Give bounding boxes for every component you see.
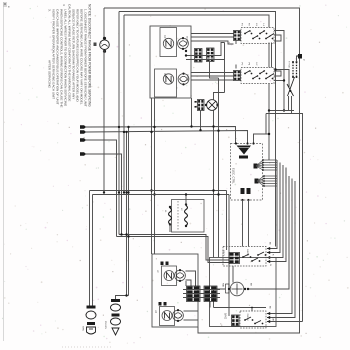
oven light block: [198, 100, 205, 111]
wire light down b: [217, 78, 219, 258]
bake contacts: [244, 317, 263, 324]
wire L1 left drop to fuse: [103, 8, 105, 40]
element LR: [173, 309, 184, 322]
oven box: [210, 258, 277, 327]
junction dots left: [103, 126, 130, 194]
wire box drop: [190, 98, 192, 128]
svg-text:P3: P3: [241, 63, 243, 66]
page bottom dots: [62, 346, 112, 348]
wire surface feed a: [150, 98, 152, 254]
thermal cutout TOD: [288, 61, 298, 78]
svg-text:3400W: 3400W: [246, 249, 248, 257]
switch box RR: [155, 69, 177, 97]
svg-text:4: 4: [62, 4, 66, 6]
fuse F1: [99, 37, 109, 53]
corner smudge: [4, 3, 10, 8]
wires RF to switch1: [191, 34, 234, 45]
switch1 right wires: [274, 31, 284, 111]
svg-text:RF: RF: [163, 35, 166, 39]
infinite switch 2: [234, 68, 275, 84]
wires LF right: [186, 271, 196, 286]
broil element box: [223, 247, 266, 267]
svg-text:OR: OR: [272, 318, 274, 322]
lamp block ticks: [195, 101, 197, 108]
wire board pin3: [254, 133, 271, 144]
bundle stub: [277, 160, 286, 184]
connector block P3: [195, 49, 203, 63]
wire labels broil: [269, 242, 274, 266]
svg-text:P: P: [302, 59, 304, 61]
svg-text:R: R: [272, 254, 274, 256]
connector block P6: [204, 286, 217, 302]
svg-text:BROIL: BROIL: [222, 250, 224, 258]
relay crossing: [287, 77, 295, 96]
switch interconnect: [269, 43, 272, 68]
sensor wire down: [169, 225, 171, 233]
wires blocks row: [183, 281, 220, 308]
label P blob: [298, 54, 304, 61]
wire pair midright: [266, 111, 303, 322]
svg-text:AFTER SERVICING: AFTER SERVICING: [48, 60, 52, 89]
svg-text:FAN: FAN: [222, 283, 225, 288]
label RF: [163, 35, 188, 44]
bundle v5: [247, 176, 289, 290]
svg-text:LF: LF: [156, 270, 158, 273]
board connector fan 1: [254, 159, 278, 171]
element RF: [178, 37, 189, 50]
surface box right: [150, 26, 191, 98]
plug stack B wire: [116, 294, 129, 299]
svg-text:BR: BR: [250, 283, 252, 286]
switch box LF: [162, 266, 177, 286]
svg-text:H1: H1: [255, 23, 257, 27]
bake element box: [240, 311, 266, 328]
wire tod feed left: [274, 68, 289, 87]
svg-text:P2: P2: [248, 23, 250, 26]
labels switch1: [241, 23, 265, 27]
svg-text:3.: 3.: [48, 9, 52, 12]
oven bottom wire: [214, 303, 267, 311]
terminal P2: [80, 130, 248, 295]
board connector fan 2: [255, 175, 278, 187]
board top pins: [235, 142, 255, 144]
wire to oven left: [117, 233, 230, 262]
svg-text:GRN: GRN: [82, 326, 84, 331]
bundle v3: [267, 165, 283, 259]
note list numerals: [48, 4, 67, 89]
wire light up: [214, 60, 225, 100]
svg-text:1200W: 1200W: [186, 74, 188, 82]
bake pins: [232, 315, 240, 326]
svg-text:H TOD: H TOD: [288, 61, 290, 68]
wires RR to switch2: [191, 73, 234, 81]
svg-text:RR: RR: [163, 73, 166, 77]
bus pair horizontal: [90, 191, 230, 195]
element LF: [175, 269, 186, 282]
wire N top: [124, 15, 269, 28]
pins LF: [161, 262, 169, 266]
convection motor: [222, 282, 247, 296]
surface box left: [152, 254, 198, 327]
wire label conv: [250, 283, 252, 286]
wire N left drop: [123, 15, 125, 193]
label LF: [156, 270, 158, 273]
wire light down a: [212, 110, 214, 257]
wire L1 top+right outer: [104, 8, 300, 333]
sensor wire up: [185, 193, 187, 204]
page edge line: [3, 2, 7, 341]
wire L2 top: [119, 12, 276, 247]
label LR: [154, 310, 156, 313]
coil RR: [163, 74, 173, 84]
bake label: [224, 313, 249, 321]
switch2 right wires: [274, 71, 285, 112]
svg-text:BAKE: BAKE: [224, 313, 227, 320]
sensor box: [172, 200, 205, 233]
element RR: [178, 73, 189, 86]
bundle v1: [267, 160, 277, 250]
wire L2 left drop: [118, 12, 120, 235]
switch box RF: [160, 28, 177, 57]
plug stack A: [82, 306, 97, 335]
svg-text:L1: L1: [262, 24, 264, 27]
notes text block: [52, 4, 92, 108]
svg-text:LR: LR: [154, 310, 156, 313]
bus pair left drop to plug: [90, 191, 93, 306]
wire surface feed b: [153, 98, 155, 254]
wire conv top feed: [232, 266, 234, 283]
svg-text:BK: BK: [269, 306, 271, 309]
bundle v7: [267, 181, 295, 319]
label RR: [163, 73, 188, 82]
pin stubs: [235, 41, 237, 69]
stray mark: [94, 43, 97, 47]
pins LR: [159, 302, 167, 306]
wires through blocks: [185, 43, 225, 60]
svg-text:P9 GRY: P9 GRY: [104, 321, 106, 330]
bus pair right drop to oven: [227, 191, 230, 312]
control board: [231, 144, 263, 201]
sensor coil 2: [185, 203, 188, 227]
board bottom pins: [241, 188, 251, 247]
wire relay down: [289, 96, 292, 114]
svg-text:BK: BK: [269, 242, 271, 245]
terminal P1: [80, 125, 236, 295]
broil pins: [229, 253, 240, 264]
broil label: [222, 249, 249, 258]
broil contacts: [242, 252, 266, 262]
coil LF: [164, 271, 174, 281]
switch box LR: [160, 307, 175, 326]
wire bake feed: [227, 247, 230, 317]
coil RF: [163, 38, 173, 48]
connector block P4: [207, 48, 215, 62]
svg-text:L2: L2: [180, 208, 182, 211]
wire relay feed: [268, 84, 270, 111]
oven light lamp: [205, 100, 219, 111]
svg-text:L1: L1: [164, 210, 166, 213]
sensor labels: [164, 208, 182, 213]
bundle v6: [267, 179, 292, 316]
svg-text:2100W: 2100W: [186, 36, 188, 44]
bundle v2: [267, 163, 280, 255]
wire labels bake: [269, 306, 274, 322]
wire conv left: [214, 289, 226, 303]
svg-text:W: W: [269, 264, 271, 266]
svg-text:ELEC. CTRL.: ELEC. CTRL.: [232, 168, 236, 185]
wire tod top: [297, 54, 302, 62]
coil LR: [162, 311, 172, 321]
bundle v8 outer: [267, 320, 303, 323]
bundle v4: [267, 168, 286, 264]
labels switch2: [241, 63, 258, 67]
wire fuse to bus: [103, 50, 105, 193]
terminal P4: [80, 152, 122, 234]
wire light block down: [199, 111, 201, 132]
sensor coil 1: [169, 206, 172, 226]
infinite switch 1: [234, 28, 275, 44]
connector block P5: [187, 286, 201, 302]
board transformer: [237, 146, 252, 159]
svg-text:H2: H2: [255, 63, 257, 67]
svg-text:P4: P4: [248, 63, 250, 66]
wire drop x269b: [266, 109, 270, 160]
wires LR right: [184, 311, 199, 320]
svg-text:2500W: 2500W: [246, 314, 248, 322]
svg-text:P1: P1: [241, 23, 243, 26]
wire block feed: [210, 62, 219, 79]
plug stack B: [104, 299, 121, 335]
terminal P3: [80, 138, 117, 236]
